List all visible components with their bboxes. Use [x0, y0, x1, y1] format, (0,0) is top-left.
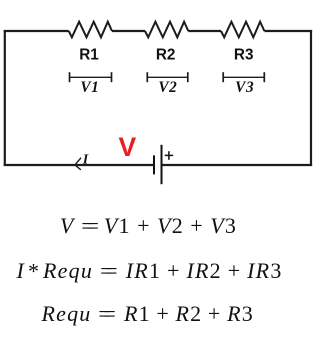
- resistor R3: [221, 22, 264, 38]
- svg-text:I*Requ == IR1 + IR2 + IR3: I*Requ == IR1 + IR2 + IR3: [16, 258, 283, 284]
- svg-text:V == V1 + V2 + V3: V == V1 + V2 + V3: [60, 213, 237, 238]
- V1 measurement bracket: [70, 72, 112, 82]
- wire: right vertical: [310, 30, 312, 166]
- resistor R1: [69, 22, 112, 38]
- svg-text:V2: V2: [158, 79, 177, 96]
- wire: top segment right of R3: [264, 30, 312, 32]
- svg-text:V: V: [119, 132, 137, 162]
- battery V: negative short plate: [153, 155, 155, 174]
- wire: bottom segment left of battery: [4, 164, 154, 166]
- svg-text:V3: V3: [235, 79, 254, 96]
- resistor R2: [145, 22, 188, 38]
- svg-text:R3: R3: [234, 47, 254, 64]
- svg-text:I: I: [82, 152, 89, 167]
- svg-text:V1: V1: [80, 79, 99, 96]
- wire: left vertical: [4, 30, 6, 166]
- current arrow (pointing left): [75, 158, 81, 170]
- battery V: positive long plate: [161, 145, 163, 184]
- wire: top segment left of R1: [4, 30, 69, 32]
- V2 measurement bracket: [147, 72, 188, 82]
- wire: top segment between R2 and R3: [188, 30, 221, 32]
- V3 measurement bracket: [223, 72, 264, 82]
- wire: top segment between R1 and R2: [112, 30, 145, 32]
- battery plus sign: [165, 154, 173, 156]
- svg-text:R1: R1: [79, 47, 99, 64]
- svg-text:R2: R2: [156, 47, 176, 64]
- wire: bottom segment right of battery: [162, 164, 312, 166]
- svg-text:Requ == R1 + R2 + R3: Requ == R1 + R2 + R3: [41, 301, 254, 326]
